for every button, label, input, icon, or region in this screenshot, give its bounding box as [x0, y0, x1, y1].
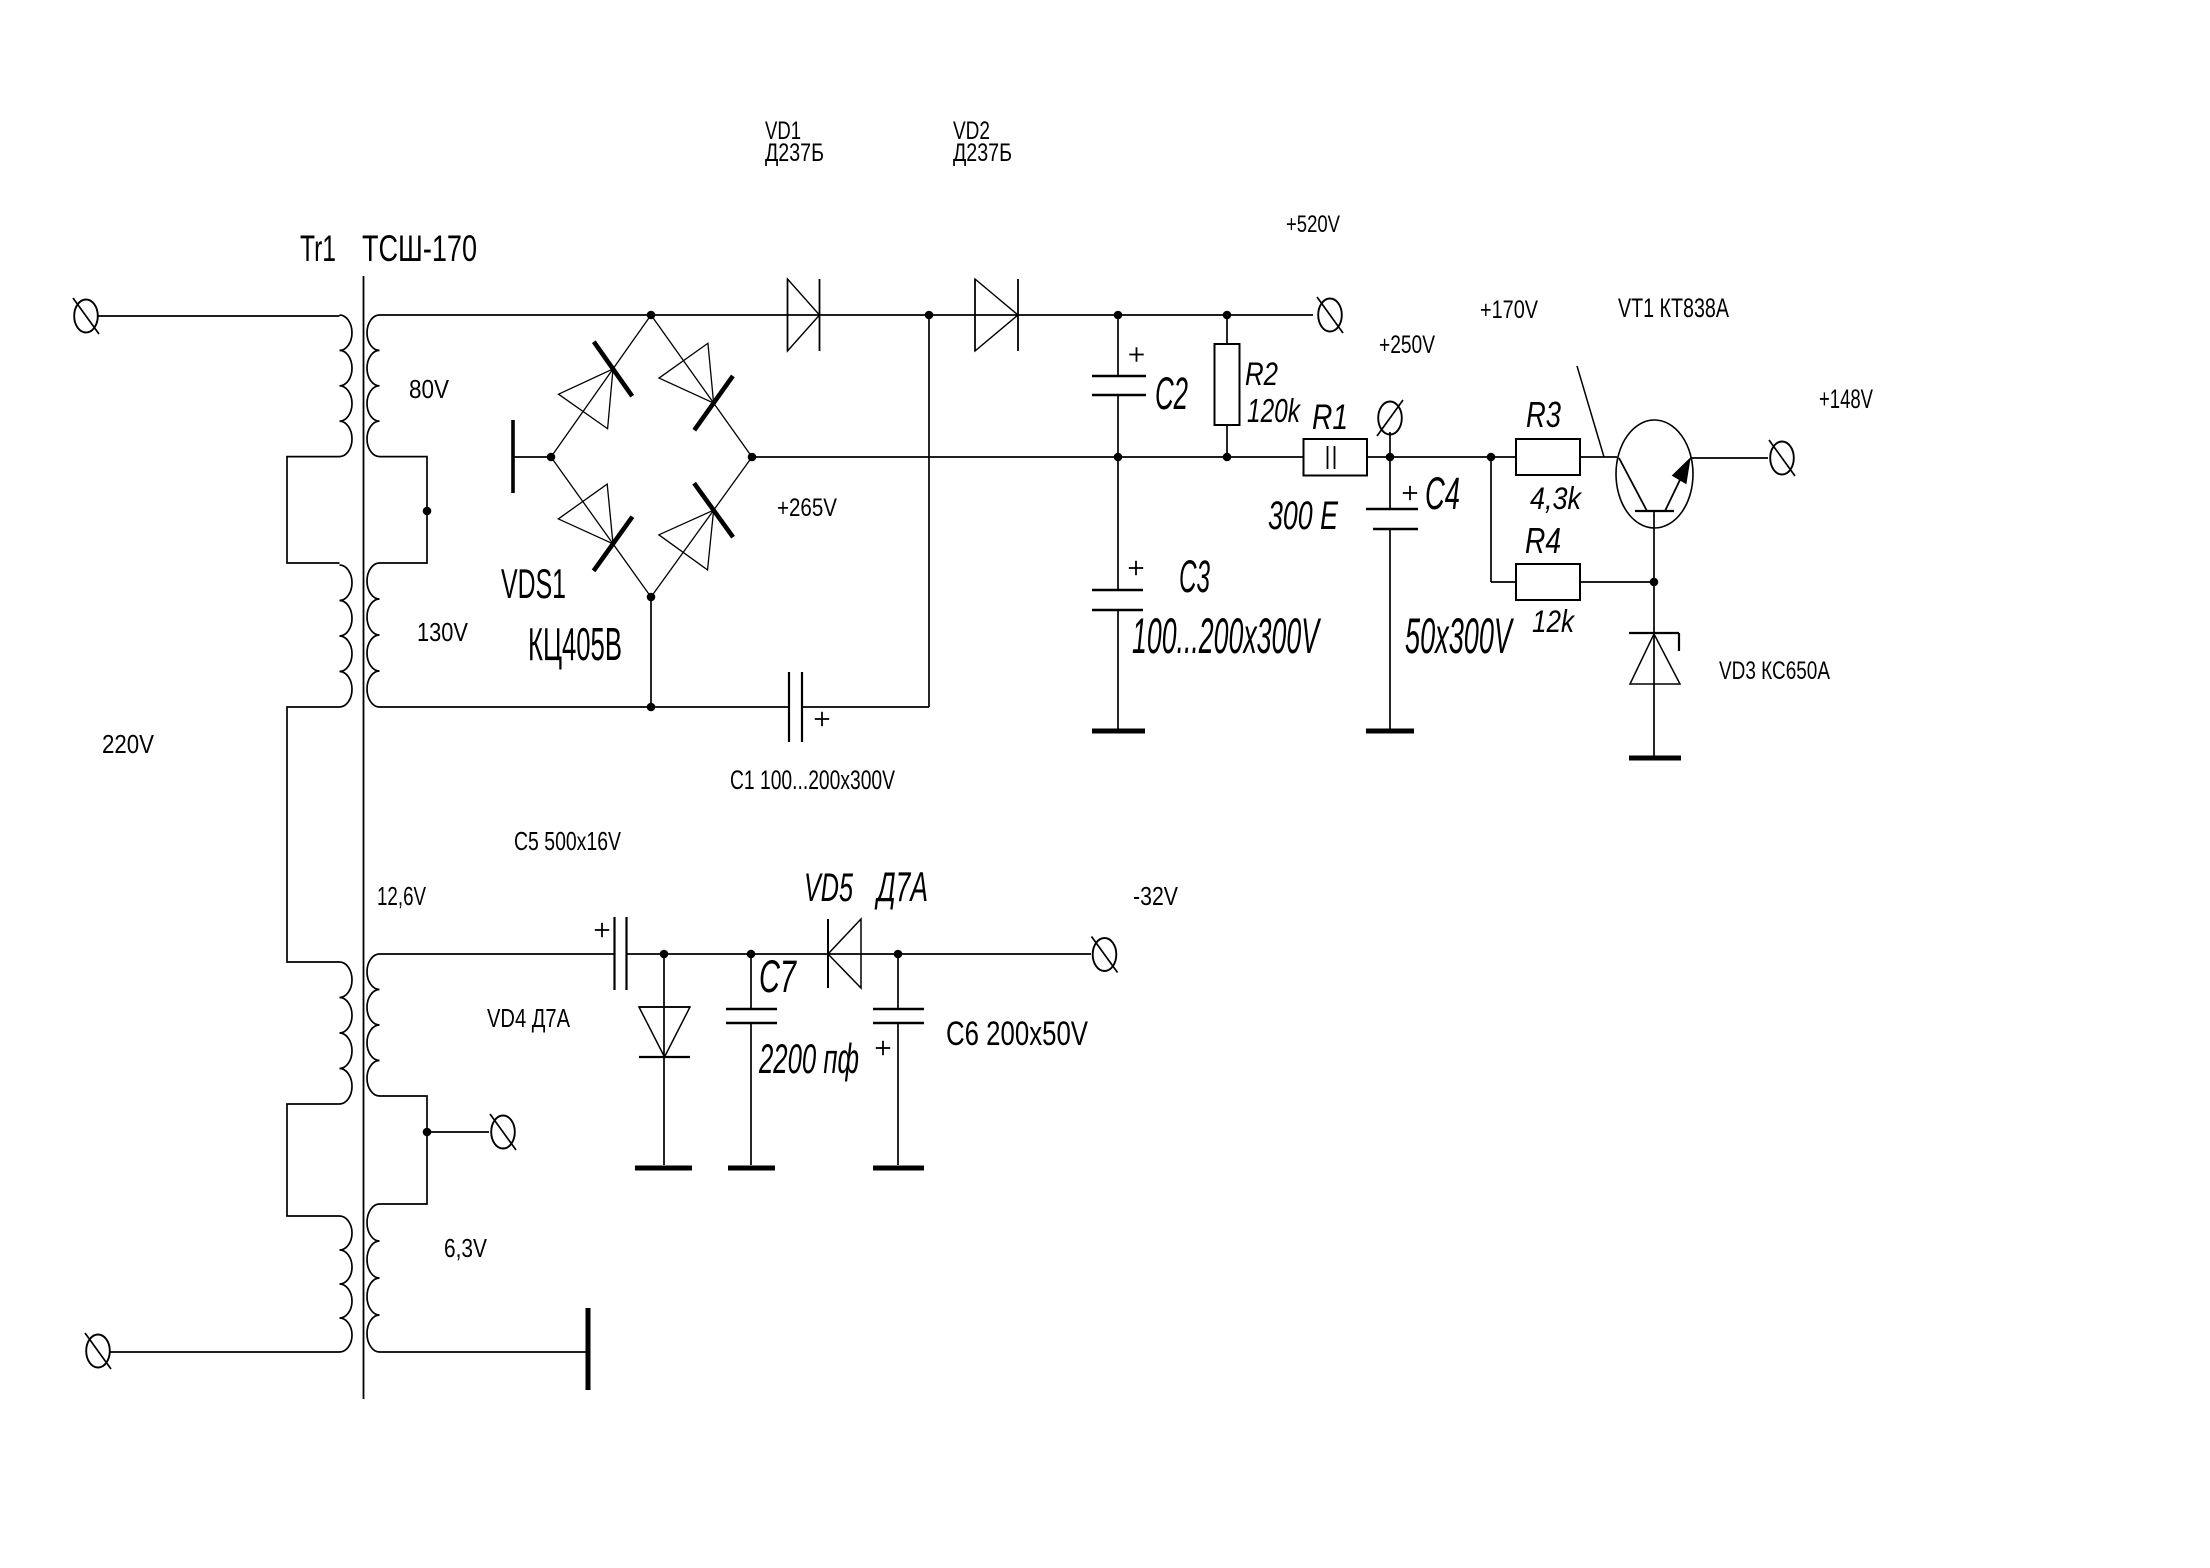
svg-text:VD4 Д7А: VD4 Д7А: [487, 1003, 571, 1033]
svg-text:12k: 12k: [1532, 603, 1576, 639]
svg-text:Д237Б: Д237Б: [765, 139, 824, 167]
svg-text:80V: 80V: [409, 374, 450, 404]
svg-text:100...200x300V: 100...200x300V: [1132, 608, 1321, 664]
svg-text:+148V: +148V: [1819, 384, 1873, 414]
svg-text:12,6V: 12,6V: [377, 881, 426, 911]
svg-text:Tr1: Tr1: [300, 228, 336, 269]
svg-text:+520V: +520V: [1286, 211, 1340, 238]
svg-text:VD5: VD5: [804, 866, 853, 910]
svg-text:-32V: -32V: [1133, 881, 1179, 911]
svg-text:300 E: 300 E: [1268, 494, 1339, 538]
svg-text:4,3k: 4,3k: [1530, 480, 1583, 516]
svg-text:VT1 КТ838А: VT1 КТ838А: [1618, 293, 1729, 323]
svg-text:Д237Б: Д237Б: [953, 139, 1012, 167]
svg-text:ТСШ-170: ТСШ-170: [362, 228, 477, 269]
svg-text:+250V: +250V: [1379, 331, 1435, 359]
svg-text:6,3V: 6,3V: [444, 1233, 488, 1263]
svg-text:Д7А: Д7А: [874, 863, 928, 910]
svg-text:C1 100...200x300V: C1 100...200x300V: [730, 765, 895, 795]
svg-text:КЦ405В: КЦ405В: [528, 618, 622, 670]
svg-text:R4: R4: [1525, 520, 1561, 561]
svg-text:C3: C3: [1179, 551, 1210, 602]
svg-text:VD3 КС650А: VD3 КС650А: [1719, 657, 1830, 685]
svg-text:R3: R3: [1526, 394, 1561, 435]
svg-text:R1: R1: [1312, 398, 1348, 437]
svg-text:2200 пф: 2200 пф: [758, 1035, 859, 1082]
svg-text:C4: C4: [1425, 468, 1460, 519]
svg-text:120k: 120k: [1247, 392, 1301, 429]
svg-text:220V: 220V: [102, 729, 155, 759]
svg-text:R2: R2: [1245, 356, 1278, 392]
svg-text:C5 500x16V: C5 500x16V: [514, 826, 621, 856]
svg-text:50x300V: 50x300V: [1405, 608, 1515, 664]
svg-text:130V: 130V: [417, 617, 469, 647]
svg-text:C2: C2: [1155, 368, 1188, 419]
svg-text:C7: C7: [759, 951, 797, 1002]
svg-text:+170V: +170V: [1480, 296, 1538, 324]
svg-text:VDS1: VDS1: [501, 560, 566, 607]
svg-text:C6 200x50V: C6 200x50V: [946, 1015, 1088, 1053]
svg-text:+265V: +265V: [777, 494, 837, 522]
